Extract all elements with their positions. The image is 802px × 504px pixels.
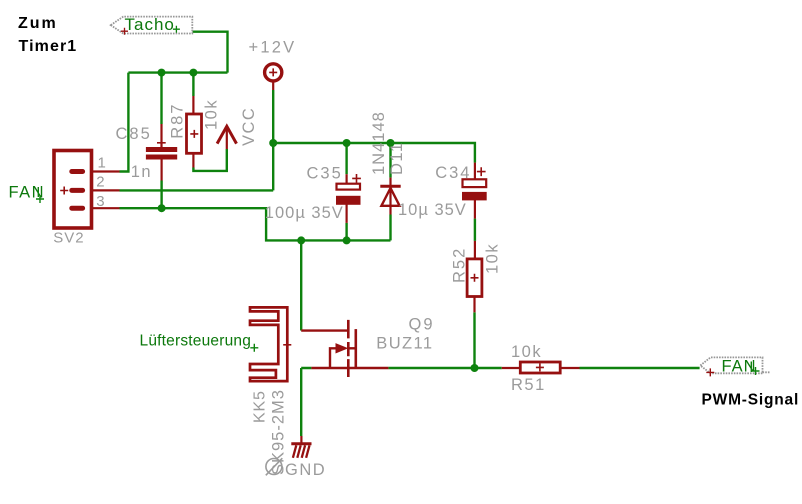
connector SV2 body <box>54 151 92 229</box>
resistor R51 left pin <box>502 367 521 369</box>
svg-text:10k: 10k <box>484 243 502 274</box>
flag Tacho outline <box>111 17 193 34</box>
diode D11 cathode bar <box>380 185 400 188</box>
diode D11 triangle <box>381 188 399 206</box>
label FAN left green cross <box>36 187 44 203</box>
capacitor C35 top pin <box>346 174 348 184</box>
transistor Q9 gate plate <box>354 329 357 368</box>
junction gate R52 R51 <box>471 364 479 372</box>
wire C34 to R52 net <box>474 219 476 241</box>
wire SV2 pin1 to top net <box>120 73 129 172</box>
heatsink KK5 serpentine <box>250 307 287 381</box>
resistor R87 bottom pin <box>192 153 194 167</box>
ground hatches <box>293 445 310 458</box>
capacitor C34 negative plate <box>463 192 487 200</box>
transistor Q9 substrate arrow <box>336 343 349 353</box>
svg-text:GND: GND <box>285 461 326 479</box>
capacitor C34 bottom pin <box>474 200 476 219</box>
wire drain vertical <box>300 240 302 330</box>
junction C35 bottom <box>343 236 351 244</box>
svg-text:R52: R52 <box>450 247 468 283</box>
junction D11 top <box>387 139 395 147</box>
svg-text:Lüftersteuerung: Lüftersteuerung <box>140 333 252 350</box>
svg-text:10µ 35V: 10µ 35V <box>398 201 467 219</box>
svg-text:BUZ11: BUZ11 <box>376 335 433 353</box>
svg-text:D11: D11 <box>388 141 406 175</box>
svg-text:10k: 10k <box>203 99 221 130</box>
junction C85 top <box>158 69 166 77</box>
connector SV2 pad stubs <box>72 172 83 209</box>
resistor R87 body <box>187 114 202 153</box>
capacitor C35 negative plate <box>337 196 361 204</box>
svg-text:C85: C85 <box>116 125 152 143</box>
svg-text:1N4148: 1N4148 <box>370 111 388 175</box>
svg-text:Tacho: Tacho <box>125 15 175 34</box>
wire C85 bottom lead net <box>160 181 162 209</box>
resistor R87 origin cross <box>190 130 198 138</box>
resistor R52 top pin <box>474 241 476 259</box>
resistor R52 origin cross <box>471 274 479 282</box>
junction C35 top <box>343 139 351 147</box>
wire C35 bottom net <box>345 223 347 241</box>
svg-text:100µ 35V: 100µ 35V <box>265 204 344 222</box>
svg-text:Timer1: Timer1 <box>19 38 78 55</box>
wire +12V vertical <box>272 90 274 190</box>
connector SV2 origin cross <box>60 187 68 195</box>
supply +12V cross <box>269 68 277 76</box>
glyph circle-slash at GND <box>266 458 283 475</box>
wire C85 top lead net <box>160 73 162 124</box>
capacitor C35 positive plate <box>337 184 361 190</box>
label Luftersteuerung green cross <box>250 344 258 352</box>
resistor R51 origin cross <box>536 363 544 371</box>
wire R87 bottom to VCC arrow <box>193 149 226 171</box>
wire source to GND <box>301 368 311 436</box>
flag FAN right stub <box>763 371 771 373</box>
capacitor C34 top pin <box>474 163 476 180</box>
flag Tacho green cross <box>173 26 180 33</box>
junction R87 top <box>189 69 197 77</box>
svg-text:R87: R87 <box>169 103 187 139</box>
wire SV2 pin2 net <box>120 189 274 191</box>
ground bar <box>291 442 311 445</box>
supply +12V circle <box>265 64 282 81</box>
resistor R51 right pin <box>560 367 579 369</box>
svg-text:10k: 10k <box>511 343 542 361</box>
svg-text:SV2: SV2 <box>53 230 84 247</box>
transistor Q9 channel segments <box>347 320 350 377</box>
svg-text:VCC: VCC <box>240 107 258 146</box>
supply VCC arrow <box>217 126 236 143</box>
resistor R51 body <box>520 362 560 373</box>
svg-text:PWM-Signal: PWM-Signal <box>702 392 800 409</box>
wire C35 top net <box>345 143 347 174</box>
flag Tacho red cross <box>121 28 128 35</box>
svg-text:+12V: +12V <box>249 39 297 57</box>
junction C85 bottom pin3 net <box>158 204 166 212</box>
capacitor C35 bottom pin <box>346 204 348 223</box>
capacitor C34 plus mark <box>477 167 486 176</box>
flag FAN right outline <box>700 357 762 373</box>
resistor R52 bottom pin <box>473 297 475 313</box>
svg-text:Zum: Zum <box>18 15 58 32</box>
svg-text:1n: 1n <box>131 163 152 181</box>
resistor R52 body <box>467 259 482 297</box>
svg-text:C35: C35 <box>307 164 343 182</box>
wire R51 to FAN flag <box>580 367 700 369</box>
wire D11 bottom net <box>389 215 391 241</box>
wire R52 bottom net <box>473 312 475 368</box>
capacitor C85 plates <box>146 147 177 152</box>
diode D11 bottom pin <box>389 186 391 214</box>
wire D11 top net <box>389 143 391 178</box>
capacitor C85 top pin <box>160 124 162 147</box>
svg-text:1: 1 <box>98 154 106 171</box>
heatsink KK5 pin tick <box>283 344 291 346</box>
svg-text:2: 2 <box>96 173 104 190</box>
supply +12V stub <box>272 80 274 90</box>
transistor Q9 substrate link <box>330 348 337 368</box>
transistor Q9 source pin <box>311 367 388 369</box>
wire +12V top rail <box>273 143 475 163</box>
ground stub <box>300 436 302 444</box>
capacitor C85 bottom pin <box>161 160 163 181</box>
flag FAN right red cross <box>706 368 714 376</box>
capacitor C35 plus mark <box>352 174 361 183</box>
connector SV2 pins 1 2 3 <box>92 172 120 209</box>
svg-text:KK5: KK5 <box>252 390 269 423</box>
wire gate net MOSFET to R51 <box>388 367 501 369</box>
junction drain stub <box>297 236 305 244</box>
svg-text:R51: R51 <box>511 376 546 394</box>
wire R87 top lead net <box>192 73 194 96</box>
capacitor C34 positive plate <box>463 179 487 187</box>
flag FAN right green cross <box>751 362 759 376</box>
wire Tacho flag to top corner <box>193 32 228 73</box>
capacitor C85 polarity tick <box>157 142 166 144</box>
transistor Q2 drain pin <box>301 329 349 331</box>
svg-text:C34: C34 <box>435 164 471 182</box>
wire top Tacho net horizontal <box>128 71 227 73</box>
diode D11 top pin <box>389 178 391 187</box>
svg-text:3: 3 <box>96 193 104 210</box>
svg-text:Q9: Q9 <box>409 316 435 334</box>
wire SV2 pin3 net to lower rail <box>120 208 391 240</box>
resistor R87 top pin <box>192 96 194 114</box>
junction +12V rail <box>269 139 277 147</box>
